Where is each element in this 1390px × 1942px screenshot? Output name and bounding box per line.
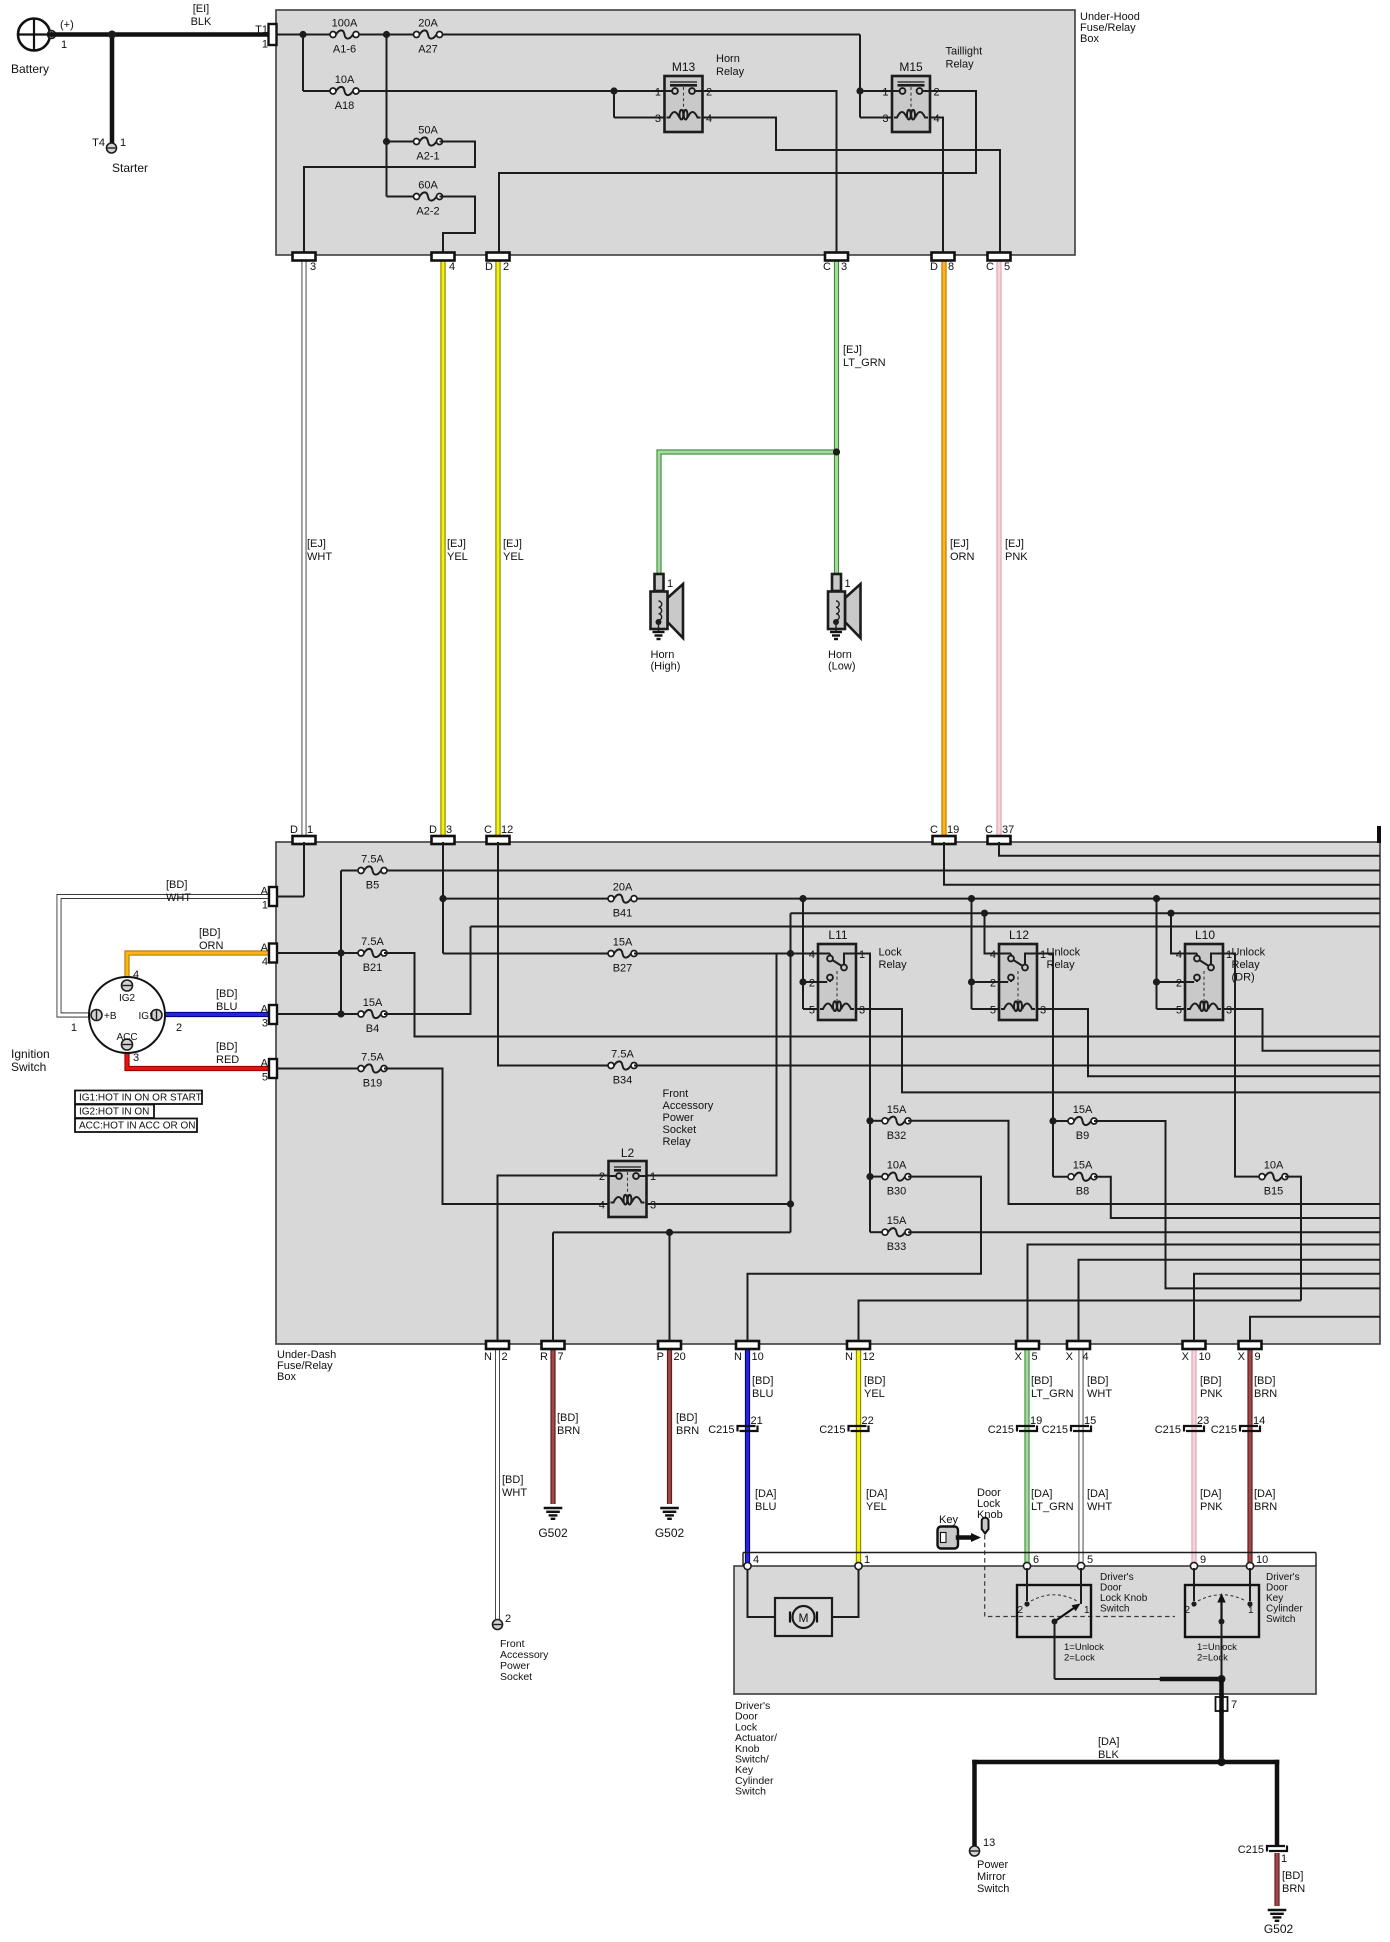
svg-text:2: 2: [1184, 1605, 1190, 1616]
svg-text:X: X: [1015, 1351, 1023, 1363]
svg-text:4: 4: [599, 1200, 605, 1212]
svg-text:L10: L10: [1195, 928, 1215, 942]
svg-text:BLK: BLK: [1098, 1749, 1119, 1761]
svg-text:2: 2: [1176, 978, 1182, 990]
svg-text:12: 12: [501, 824, 513, 836]
svg-text:BLU: BLU: [755, 1501, 776, 1513]
svg-text:3: 3: [841, 261, 847, 273]
svg-text:(+): (+): [60, 19, 74, 31]
svg-text:WHT: WHT: [502, 1487, 527, 1499]
svg-text:7: 7: [1231, 1699, 1237, 1711]
svg-text:15: 15: [1084, 1415, 1096, 1427]
svg-text:[BD]: [BD]: [557, 1412, 578, 1424]
svg-text:Relay: Relay: [1047, 959, 1076, 971]
svg-text:23: 23: [1197, 1415, 1209, 1427]
svg-text:BRN: BRN: [557, 1425, 580, 1437]
svg-text:Box: Box: [277, 1371, 296, 1383]
svg-text:[BD]: [BD]: [1282, 1870, 1303, 1882]
svg-text:1: 1: [859, 949, 865, 961]
svg-text:3: 3: [859, 1005, 865, 1017]
svg-text:Horn: Horn: [716, 53, 740, 65]
svg-text:2: 2: [706, 87, 712, 99]
svg-text:21: 21: [751, 1415, 763, 1427]
svg-text:3: 3: [446, 824, 452, 836]
svg-text:15A: 15A: [887, 1215, 907, 1227]
svg-text:1=Unlock: 1=Unlock: [1064, 1642, 1104, 1653]
svg-text:19: 19: [947, 824, 959, 836]
svg-text:2=Lock: 2=Lock: [1064, 1653, 1095, 1664]
svg-text:[EJ]: [EJ]: [447, 538, 466, 550]
svg-text:[BD]: [BD]: [216, 1041, 237, 1053]
svg-text:T1: T1: [255, 24, 268, 36]
svg-text:[EI]: [EI]: [193, 3, 210, 15]
svg-text:WHT: WHT: [1087, 1388, 1112, 1400]
svg-text:20A: 20A: [613, 882, 633, 894]
svg-text:B21: B21: [363, 962, 383, 974]
svg-text:G502: G502: [538, 1526, 568, 1540]
svg-text:M13: M13: [672, 60, 696, 74]
svg-text:A27: A27: [418, 44, 438, 56]
svg-text:C: C: [985, 824, 993, 836]
svg-text:X: X: [1238, 1351, 1246, 1363]
svg-text:3: 3: [133, 1052, 139, 1064]
svg-text:YEL: YEL: [866, 1501, 887, 1513]
svg-text:1: 1: [667, 578, 673, 590]
svg-text:2=Lock: 2=Lock: [1197, 1653, 1228, 1664]
svg-text:YEL: YEL: [447, 551, 468, 563]
svg-text:N: N: [845, 1351, 853, 1363]
svg-text:IG1: IG1: [139, 1011, 156, 1022]
svg-text:X: X: [1066, 1351, 1074, 1363]
svg-text:10A: 10A: [335, 74, 355, 86]
svg-text:1: 1: [262, 39, 268, 51]
svg-text:[DA]: [DA]: [1200, 1488, 1221, 1500]
svg-text:B19: B19: [363, 1078, 383, 1090]
svg-text:[BD]: [BD]: [1031, 1375, 1052, 1387]
svg-text:M: M: [799, 1611, 809, 1625]
svg-text:Switch: Switch: [977, 1883, 1009, 1895]
svg-text:D: D: [290, 824, 298, 836]
svg-text:[DA]: [DA]: [1098, 1736, 1119, 1748]
svg-text:3: 3: [1040, 1005, 1046, 1017]
svg-text:ACC:HOT IN ACC OR ON: ACC:HOT IN ACC OR ON: [79, 1121, 196, 1132]
svg-text:1: 1: [1084, 1605, 1090, 1616]
svg-text:12: 12: [863, 1351, 875, 1363]
svg-text:10: 10: [1256, 1554, 1268, 1566]
svg-text:4: 4: [133, 969, 139, 981]
svg-text:Driver's: Driver's: [1100, 1572, 1134, 1583]
svg-text:60A: 60A: [418, 180, 438, 192]
svg-text:5: 5: [990, 1005, 996, 1017]
svg-text:1: 1: [1248, 1605, 1254, 1616]
svg-text:1: 1: [61, 39, 67, 51]
svg-text:(High): (High): [651, 661, 681, 673]
svg-text:A2-2: A2-2: [416, 206, 439, 218]
svg-text:IG2: IG2: [119, 993, 136, 1004]
svg-text:14: 14: [1253, 1415, 1265, 1427]
svg-text:4: 4: [449, 261, 455, 273]
svg-text:D: D: [485, 261, 493, 273]
svg-text:5: 5: [809, 1005, 815, 1017]
svg-text:3: 3: [310, 261, 316, 273]
svg-text:3: 3: [262, 1018, 268, 1030]
svg-text:(Low): (Low): [828, 661, 856, 673]
svg-text:3: 3: [655, 113, 661, 125]
svg-text:10A: 10A: [1264, 1160, 1284, 1172]
svg-text:2: 2: [176, 1022, 182, 1034]
svg-text:13: 13: [983, 1837, 995, 1849]
svg-text:BRN: BRN: [676, 1425, 699, 1437]
svg-text:BLU: BLU: [216, 1001, 237, 1013]
svg-text:[BD]: [BD]: [1200, 1375, 1221, 1387]
svg-text:3: 3: [882, 113, 888, 125]
svg-text:2: 2: [599, 1171, 605, 1183]
svg-text:1: 1: [1226, 949, 1232, 961]
svg-text:M15: M15: [899, 60, 923, 74]
svg-text:[BD]: [BD]: [166, 879, 187, 891]
svg-text:5: 5: [1087, 1554, 1093, 1566]
svg-text:1: 1: [120, 137, 126, 149]
svg-text:4: 4: [809, 949, 815, 961]
svg-text:2: 2: [505, 1613, 511, 1625]
svg-text:3: 3: [650, 1200, 656, 1212]
svg-text:20: 20: [674, 1351, 686, 1363]
svg-text:19: 19: [1030, 1415, 1042, 1427]
svg-text:2: 2: [990, 978, 996, 990]
svg-text:C215: C215: [988, 1424, 1014, 1436]
svg-text:B41: B41: [613, 908, 633, 920]
svg-text:[EJ]: [EJ]: [843, 344, 862, 356]
svg-text:[BD]: [BD]: [676, 1412, 697, 1424]
svg-text:C: C: [930, 824, 938, 836]
svg-text:[DA]: [DA]: [1087, 1488, 1108, 1500]
svg-text:5: 5: [262, 1072, 268, 1084]
svg-text:B30: B30: [887, 1186, 907, 1198]
svg-text:Front: Front: [663, 1088, 689, 1100]
svg-text:2: 2: [1017, 1605, 1023, 1616]
svg-text:L12: L12: [1009, 928, 1029, 942]
svg-text:D: D: [429, 824, 437, 836]
svg-text:7.5A: 7.5A: [361, 854, 384, 866]
svg-text:A: A: [261, 942, 269, 954]
svg-text:2: 2: [934, 87, 940, 99]
svg-text:Relay: Relay: [663, 1136, 692, 1148]
svg-text:15A: 15A: [887, 1104, 907, 1116]
svg-text:Knob: Knob: [977, 1509, 1003, 1521]
svg-text:B4: B4: [366, 1023, 379, 1035]
svg-text:Door: Door: [1266, 1583, 1288, 1594]
svg-text:P: P: [657, 1351, 664, 1363]
svg-text:G502: G502: [655, 1526, 685, 1540]
svg-text:C: C: [823, 261, 831, 273]
svg-text:[BD]: [BD]: [199, 927, 220, 939]
svg-text:15A: 15A: [363, 997, 383, 1009]
svg-text:LT_GRN: LT_GRN: [1031, 1501, 1074, 1513]
svg-text:G502: G502: [1264, 1922, 1294, 1936]
svg-text:Cylinder: Cylinder: [1266, 1604, 1303, 1615]
svg-text:LT_GRN: LT_GRN: [843, 357, 886, 369]
svg-text:2: 2: [502, 1351, 508, 1363]
svg-text:[EJ]: [EJ]: [1005, 538, 1024, 550]
svg-text:C215: C215: [708, 1424, 734, 1436]
svg-text:[BD]: [BD]: [752, 1375, 773, 1387]
svg-text:1: 1: [882, 87, 888, 99]
svg-text:1=Unlock: 1=Unlock: [1197, 1642, 1237, 1653]
svg-text:[BD]: [BD]: [1254, 1375, 1275, 1387]
svg-text:WHT: WHT: [166, 892, 191, 904]
svg-text:BRN: BRN: [1282, 1883, 1305, 1895]
svg-text:A: A: [261, 886, 269, 898]
svg-text:B15: B15: [1264, 1186, 1284, 1198]
svg-text:BLK: BLK: [191, 16, 212, 28]
svg-text:A: A: [261, 1004, 269, 1016]
svg-text:IG1:HOT IN ON OR START: IG1:HOT IN ON OR START: [79, 1093, 202, 1104]
svg-text:6: 6: [1033, 1554, 1039, 1566]
svg-text:B9: B9: [1076, 1130, 1089, 1142]
svg-text:1: 1: [845, 578, 851, 590]
svg-text:[BD]: [BD]: [502, 1474, 523, 1486]
svg-text:Mirror: Mirror: [977, 1871, 1006, 1883]
svg-text:D: D: [930, 261, 938, 273]
svg-text:B34: B34: [613, 1075, 633, 1087]
svg-text:B8: B8: [1076, 1186, 1089, 1198]
svg-text:Box: Box: [1080, 33, 1099, 45]
svg-text:A18: A18: [335, 100, 355, 112]
svg-text:WHT: WHT: [1087, 1501, 1112, 1513]
svg-text:4: 4: [753, 1554, 759, 1566]
svg-text:2: 2: [809, 978, 815, 990]
svg-text:C215: C215: [819, 1424, 845, 1436]
svg-text:Power: Power: [977, 1859, 1009, 1871]
svg-text:Relay: Relay: [716, 66, 745, 78]
svg-text:10A: 10A: [887, 1160, 907, 1172]
svg-text:Power: Power: [663, 1112, 695, 1124]
svg-text:[EJ]: [EJ]: [503, 538, 522, 550]
svg-text:YEL: YEL: [864, 1388, 885, 1400]
svg-text:9: 9: [1200, 1554, 1206, 1566]
svg-text:Driver's: Driver's: [1266, 1572, 1300, 1583]
svg-text:8: 8: [948, 261, 954, 273]
svg-text:4: 4: [1083, 1351, 1089, 1363]
svg-text:BRN: BRN: [1254, 1501, 1277, 1513]
svg-text:C: C: [484, 824, 492, 836]
svg-text:RED: RED: [216, 1054, 239, 1066]
svg-text:Lock: Lock: [879, 947, 903, 959]
svg-text:[EJ]: [EJ]: [307, 538, 326, 550]
svg-text:IG2:HOT IN ON: IG2:HOT IN ON: [79, 1107, 149, 1118]
svg-text:WHT: WHT: [307, 551, 332, 563]
svg-text:Key: Key: [939, 1514, 958, 1526]
svg-text:+B: +B: [104, 1011, 117, 1022]
svg-text:15A: 15A: [1073, 1160, 1093, 1172]
svg-text:15A: 15A: [1073, 1104, 1093, 1116]
svg-text:PNK: PNK: [1200, 1388, 1223, 1400]
svg-text:4: 4: [934, 113, 940, 125]
svg-text:[DA]: [DA]: [866, 1488, 887, 1500]
svg-text:22: 22: [862, 1415, 874, 1427]
svg-text:A: A: [261, 1058, 269, 1070]
svg-text:1: 1: [650, 1171, 656, 1183]
svg-text:PNK: PNK: [1005, 551, 1028, 563]
svg-text:ACC: ACC: [116, 1032, 137, 1043]
svg-text:LT_GRN: LT_GRN: [1031, 1388, 1074, 1400]
svg-text:1: 1: [1281, 1853, 1287, 1865]
svg-text:4: 4: [1176, 949, 1182, 961]
svg-text:100A: 100A: [332, 18, 358, 30]
svg-text:7.5A: 7.5A: [611, 1049, 634, 1061]
svg-text:N: N: [484, 1351, 492, 1363]
svg-text:T4: T4: [92, 137, 105, 149]
svg-text:BRN: BRN: [1254, 1388, 1277, 1400]
svg-text:N: N: [734, 1351, 742, 1363]
svg-text:PNK: PNK: [1200, 1501, 1223, 1513]
svg-text:[BD]: [BD]: [216, 988, 237, 1000]
svg-text:ORN: ORN: [950, 551, 975, 563]
svg-text:20A: 20A: [418, 18, 438, 30]
svg-text:5: 5: [1004, 261, 1010, 273]
svg-text:4: 4: [990, 949, 996, 961]
svg-text:4: 4: [706, 113, 712, 125]
svg-text:C215: C215: [1042, 1424, 1068, 1436]
svg-text:3: 3: [1226, 1005, 1232, 1017]
svg-text:B5: B5: [366, 880, 379, 892]
svg-text:C: C: [986, 261, 994, 273]
svg-text:1: 1: [1040, 949, 1046, 961]
svg-text:X: X: [1182, 1351, 1190, 1363]
svg-text:Switch: Switch: [1266, 1614, 1295, 1625]
svg-text:B33: B33: [887, 1241, 907, 1253]
svg-text:[EJ]: [EJ]: [950, 538, 969, 550]
svg-text:Switch: Switch: [1100, 1604, 1129, 1615]
svg-text:[DA]: [DA]: [1254, 1488, 1275, 1500]
svg-text:B27: B27: [613, 963, 633, 975]
svg-text:10: 10: [752, 1351, 764, 1363]
svg-text:R: R: [540, 1351, 548, 1363]
svg-text:A1-6: A1-6: [333, 44, 356, 56]
svg-text:C215: C215: [1238, 1844, 1264, 1856]
svg-text:Starter: Starter: [112, 161, 148, 175]
svg-text:1: 1: [307, 824, 313, 836]
svg-text:YEL: YEL: [503, 551, 524, 563]
svg-text:Switch: Switch: [735, 1786, 766, 1798]
svg-text:Horn: Horn: [651, 649, 675, 661]
svg-text:BLU: BLU: [752, 1388, 773, 1400]
svg-text:Lock Knob: Lock Knob: [1100, 1593, 1148, 1604]
svg-text:37: 37: [1002, 824, 1014, 836]
svg-text:Relay: Relay: [946, 59, 975, 71]
svg-text:Battery: Battery: [11, 62, 49, 76]
svg-text:7.5A: 7.5A: [361, 1052, 384, 1064]
svg-text:C215: C215: [1211, 1424, 1237, 1436]
svg-text:L11: L11: [828, 928, 847, 942]
svg-text:L2: L2: [621, 1146, 635, 1160]
svg-text:Taillight: Taillight: [946, 46, 983, 58]
svg-text:ORN: ORN: [199, 940, 224, 952]
svg-text:Socket: Socket: [663, 1124, 697, 1136]
svg-text:Horn: Horn: [828, 649, 852, 661]
svg-text:[BD]: [BD]: [1087, 1375, 1108, 1387]
svg-text:4: 4: [262, 956, 268, 968]
svg-text:[DA]: [DA]: [755, 1488, 776, 1500]
svg-text:[BD]: [BD]: [864, 1375, 885, 1387]
svg-text:B32: B32: [887, 1130, 907, 1142]
svg-text:Ignition: Ignition: [11, 1047, 50, 1061]
svg-text:Socket: Socket: [500, 1671, 532, 1683]
svg-text:10: 10: [1199, 1351, 1211, 1363]
svg-text:9: 9: [1255, 1351, 1261, 1363]
svg-text:Switch: Switch: [11, 1060, 46, 1074]
svg-text:Relay: Relay: [879, 959, 908, 971]
svg-text:1: 1: [71, 1022, 77, 1034]
svg-text:50A: 50A: [418, 125, 438, 137]
svg-text:Accessory: Accessory: [663, 1100, 714, 1112]
svg-text:Key: Key: [1266, 1593, 1283, 1604]
svg-text:1: 1: [262, 900, 268, 912]
svg-text:5: 5: [1176, 1005, 1182, 1017]
svg-text:1: 1: [655, 87, 661, 99]
svg-text:C215: C215: [1155, 1424, 1181, 1436]
svg-text:7.5A: 7.5A: [361, 936, 384, 948]
svg-text:[DA]: [DA]: [1031, 1488, 1052, 1500]
svg-text:Door: Door: [1100, 1583, 1122, 1594]
svg-text:2: 2: [503, 261, 509, 273]
svg-text:5: 5: [1032, 1351, 1038, 1363]
svg-text:7: 7: [558, 1351, 564, 1363]
svg-text:Unlock: Unlock: [1232, 947, 1266, 959]
svg-text:A2-1: A2-1: [416, 151, 439, 163]
svg-text:15A: 15A: [613, 937, 633, 949]
svg-text:1: 1: [864, 1554, 870, 1566]
